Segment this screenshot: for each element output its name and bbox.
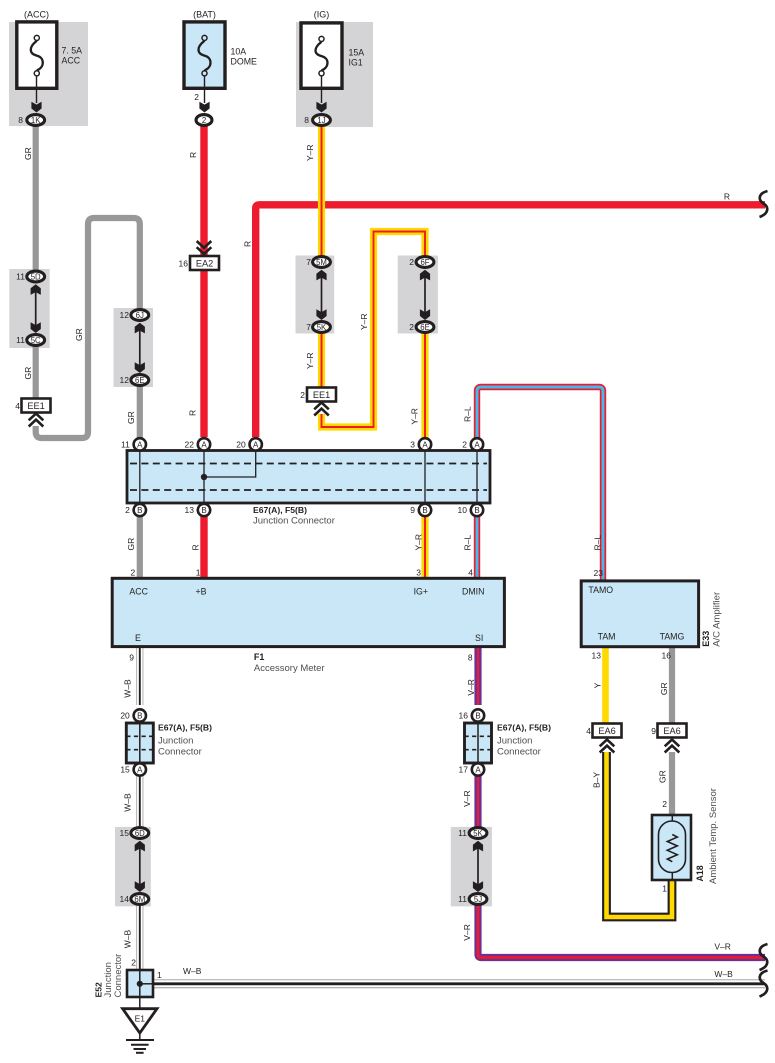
wire Y-R 5K to EE1: [318, 333, 325, 389]
break mark R wire: [760, 191, 768, 217]
connector EA6 pin 9 on GR wire: [658, 724, 687, 738]
svg-text:Y–R: Y–R: [305, 352, 315, 369]
svg-text:ACC: ACC: [62, 56, 81, 66]
connector 5J pin 11: [469, 894, 487, 905]
svg-text:11: 11: [16, 272, 25, 282]
svg-text:8: 8: [468, 653, 473, 663]
svg-text:11: 11: [458, 828, 467, 838]
connector 2: [196, 115, 212, 126]
wire GR EE1 loop to 6J via U-shape: [36, 218, 140, 438]
svg-text:+B: +B: [196, 587, 207, 597]
svg-text:B: B: [137, 712, 142, 721]
svg-text:DOME: DOME: [231, 57, 258, 67]
wire GR E33 TAMG to EA6: [669, 646, 675, 724]
svg-text:Accessory Meter: Accessory Meter: [254, 663, 325, 674]
svg-text:V–R: V–R: [462, 790, 472, 807]
fuse IG1 15A: [301, 23, 342, 88]
wire GR EA6 to A18 pin 2: [669, 752, 675, 815]
svg-text:GR: GR: [23, 147, 33, 160]
svg-text:Junction Connector: Junction Connector: [253, 516, 335, 527]
svg-text:Ambient Temp. Sensor: Ambient Temp. Sensor: [708, 788, 719, 884]
fuse DOME 10A: [184, 22, 225, 88]
svg-text:R: R: [191, 544, 201, 550]
svg-text:16: 16: [179, 258, 189, 268]
svg-text:16: 16: [459, 711, 469, 721]
connector 5K pin 7: [313, 322, 331, 333]
junction pin 10 B: [471, 504, 483, 516]
svg-text:12: 12: [120, 375, 130, 385]
connector EE1 pin 2 on Y-R wire: [307, 388, 336, 402]
svg-text:2: 2: [662, 799, 667, 809]
svg-text:5J: 5J: [474, 895, 482, 904]
junction pin 20 A: [250, 438, 262, 450]
svg-text:B: B: [201, 506, 206, 515]
connector 6M pin 14: [131, 894, 149, 905]
svg-text:GR: GR: [659, 682, 669, 695]
svg-text:Junction: Junction: [158, 736, 193, 747]
svg-text:17: 17: [459, 765, 469, 775]
connector pair background 6D/6M: [115, 827, 151, 907]
break mark W-B wire: [760, 971, 768, 997]
svg-text:7: 7: [306, 257, 311, 267]
svg-text:9: 9: [651, 726, 656, 736]
connector pair 5K/5J arrows: [477, 845, 479, 888]
svg-text:6F: 6F: [420, 258, 429, 267]
svg-text:TAMO: TAMO: [588, 585, 613, 595]
connector 5K pin 11: [469, 828, 487, 839]
junction internal link 22A-13B: [203, 451, 205, 504]
svg-text:A: A: [201, 440, 207, 449]
svg-text:1K: 1K: [31, 116, 41, 125]
svg-text:12: 12: [120, 310, 130, 320]
wire W-B F1 E to 20B: [136, 646, 143, 705]
connector 5M pin 7: [313, 257, 331, 268]
junction pin 17 A right: [472, 763, 484, 775]
wire GR from fuse ACC 1K to 5D: [33, 126, 39, 271]
junction connector E52 box: [127, 970, 153, 997]
svg-text:6E: 6E: [135, 376, 145, 385]
svg-text:B: B: [137, 506, 142, 515]
svg-text:E67(A), F5(B): E67(A), F5(B): [158, 723, 212, 733]
svg-text:V–R: V–R: [462, 924, 472, 941]
svg-text:W–B: W–B: [183, 966, 202, 976]
connector 6F pin 2: [416, 257, 434, 268]
connector 6J pin 12: [131, 310, 149, 321]
svg-text:E67(A), F5(B): E67(A), F5(B): [497, 723, 551, 733]
svg-text:20: 20: [120, 711, 130, 721]
fuse ACC 7.5A: [17, 22, 57, 88]
E52 node dot: [137, 981, 143, 987]
connector EE1 pin 4 on GR wire: [22, 399, 51, 413]
svg-text:A/C Amplifier: A/C Amplifier: [712, 592, 723, 647]
ambient temp sensor A18: [652, 815, 691, 880]
svg-text:2: 2: [130, 568, 135, 578]
connector pair background 6F/6E: [398, 256, 438, 334]
svg-text:A: A: [253, 440, 259, 449]
connector 1J pin 8: [313, 115, 331, 126]
svg-text:2: 2: [462, 440, 467, 450]
svg-text:5M: 5M: [316, 258, 327, 267]
wire W-B 6M to E52: [136, 904, 143, 970]
wire R from fuse DOME oval to EA2: [200, 126, 207, 437]
svg-text:2: 2: [409, 257, 414, 267]
svg-text:1: 1: [157, 970, 162, 980]
svg-text:B: B: [422, 506, 427, 515]
junction internal link 11A-2B: [139, 451, 141, 504]
svg-text:14: 14: [120, 894, 130, 904]
connector pair 5M/5K arrows: [321, 274, 323, 316]
junction pin 16 B right: [472, 709, 484, 721]
svg-text:Y–R: Y–R: [410, 408, 420, 425]
svg-text:1J: 1J: [317, 116, 325, 125]
svg-text:3: 3: [410, 440, 415, 450]
wire R-L junction 2A up over to E33 TAMO: [477, 387, 603, 581]
svg-text:9: 9: [129, 653, 134, 663]
svg-text:Y: Y: [593, 682, 603, 688]
svg-text:A: A: [475, 766, 481, 775]
svg-text:EE1: EE1: [27, 401, 44, 411]
svg-text:W–B: W–B: [123, 793, 133, 812]
svg-text:R: R: [188, 152, 198, 158]
svg-text:2: 2: [194, 92, 199, 102]
connector 6D pin 15: [131, 828, 149, 839]
svg-text:R–L: R–L: [463, 535, 473, 551]
svg-text:R: R: [188, 410, 198, 416]
svg-text:TAM: TAM: [598, 632, 616, 642]
svg-text:E52: E52: [94, 982, 104, 998]
wire V-R 5J down and right to edge break: [478, 904, 765, 958]
svg-text:4: 4: [15, 401, 20, 411]
svg-text:2: 2: [125, 505, 130, 515]
svg-text:V–R: V–R: [714, 942, 731, 952]
connector pair 6D/6M arrows: [139, 845, 141, 888]
svg-text:3: 3: [416, 568, 421, 578]
junction pin 13 B: [198, 504, 210, 516]
wire Y-R from fuse IG1 1J down to 5M: [318, 126, 325, 257]
svg-text:Junction: Junction: [497, 736, 532, 747]
accessory meter F1 box: [112, 578, 504, 646]
svg-text:A: A: [137, 766, 143, 775]
connector pair background 5M/5K: [296, 256, 335, 334]
svg-text:2: 2: [409, 322, 414, 332]
svg-text:6M: 6M: [134, 895, 145, 904]
ground symbol: [139, 1033, 141, 1040]
svg-text:6E: 6E: [420, 323, 430, 332]
svg-text:W–B: W–B: [714, 969, 733, 979]
svg-text:E33: E33: [701, 631, 711, 647]
junction connector E67(A) F5(B) left small box: [126, 723, 153, 763]
svg-text:EA2: EA2: [196, 258, 213, 268]
fuse block background (ACC): [9, 22, 88, 126]
junction pin 11 A: [134, 438, 146, 450]
resistor zigzag in A18: [667, 835, 677, 862]
svg-text:8: 8: [18, 115, 23, 125]
wire V-R 17A to 5K: [474, 775, 481, 828]
wire W-B 15A to 6D: [136, 775, 143, 828]
junction pin 9 B: [419, 504, 431, 516]
svg-text:20: 20: [236, 440, 246, 450]
svg-text:SI: SI: [475, 633, 483, 643]
wire R horizontal branch to right edge with break: [256, 205, 765, 437]
svg-text:E: E: [135, 633, 141, 643]
junction pin 20 B left: [134, 709, 146, 721]
svg-text:16: 16: [662, 651, 672, 661]
svg-text:EE1: EE1: [313, 390, 330, 400]
svg-text:GR: GR: [658, 770, 668, 783]
svg-text:ACC: ACC: [129, 587, 148, 597]
svg-text:R: R: [243, 241, 253, 247]
svg-text:(ACC): (ACC): [24, 9, 49, 19]
wire GR 5C to EE1: [33, 345, 39, 400]
junction internal link 2A-10B: [476, 451, 478, 504]
svg-text:23: 23: [594, 568, 604, 578]
svg-text:10A: 10A: [231, 47, 247, 57]
svg-text:13: 13: [592, 651, 602, 661]
svg-text:EA6: EA6: [598, 726, 615, 736]
svg-text:B–Y: B–Y: [592, 772, 602, 788]
svg-text:6D: 6D: [135, 829, 145, 838]
connector 1K pin 8: [27, 115, 45, 126]
connector 6E pin 2: [416, 322, 434, 333]
svg-text:Connector: Connector: [113, 954, 124, 998]
svg-text:E67(A), F5(B): E67(A), F5(B): [253, 505, 307, 515]
svg-text:IG+: IG+: [414, 587, 428, 597]
ground E1 triangle: [123, 1009, 157, 1033]
svg-text:4: 4: [586, 726, 591, 736]
wire GR junction pin 2B to F1 ACC: [137, 516, 143, 578]
connector pair background 6J/6E: [114, 308, 154, 387]
svg-text:15A: 15A: [349, 48, 365, 58]
svg-text:W–B: W–B: [123, 929, 133, 948]
svg-text:B: B: [475, 712, 480, 721]
junction node dot: [201, 474, 207, 480]
svg-text:15: 15: [120, 765, 130, 775]
svg-text:E1: E1: [135, 1014, 146, 1024]
svg-text:22: 22: [185, 440, 195, 450]
svg-text:F1: F1: [254, 652, 265, 662]
connector 5D pin 11: [27, 271, 45, 282]
connector EA2 pin 16 on R wire: [197, 247, 212, 254]
junction pin 2 A: [471, 438, 483, 450]
connector pair background 5K/5J: [451, 827, 492, 907]
svg-text:4: 4: [468, 568, 473, 578]
svg-text:11: 11: [16, 335, 25, 345]
svg-text:R–L: R–L: [593, 535, 603, 551]
svg-text:TAMG: TAMG: [660, 632, 685, 642]
svg-text:10: 10: [458, 505, 468, 515]
svg-text:GR: GR: [126, 411, 136, 424]
wire Y-R 6E to junction 3A: [421, 333, 428, 438]
svg-text:7. 5A: 7. 5A: [62, 46, 83, 56]
connector pair 5D/5C arrows: [35, 288, 37, 329]
connector pair background 5D/5C: [9, 269, 49, 348]
svg-text:2: 2: [202, 116, 206, 125]
A/C amplifier E33 box: [581, 581, 698, 647]
svg-text:13: 13: [185, 505, 195, 515]
svg-text:8: 8: [304, 115, 309, 125]
junction pin 3 A: [419, 438, 431, 450]
fuse block background (IG): [296, 22, 373, 127]
break mark V-R wire: [760, 944, 768, 970]
connector pair 6J/6E arrows: [139, 327, 141, 369]
svg-text:7: 7: [306, 322, 311, 332]
svg-text:Y–R: Y–R: [359, 313, 369, 330]
junction pin 15 A left: [134, 763, 146, 775]
svg-text:(IG): (IG): [314, 9, 330, 19]
svg-text:2: 2: [131, 958, 136, 968]
junction connector E67(A) F5(B) right small box: [465, 723, 492, 763]
svg-text:11: 11: [458, 894, 467, 904]
junction connector E67(A) F5(B) box: [127, 451, 490, 504]
connector 6E pin 12: [131, 375, 149, 386]
svg-text:6J: 6J: [136, 311, 144, 320]
svg-text:2: 2: [300, 390, 305, 400]
svg-text:5C: 5C: [31, 336, 41, 345]
junction internal link 20A branch: [204, 451, 256, 478]
svg-text:5K: 5K: [317, 323, 327, 332]
svg-text:DMIN: DMIN: [462, 587, 484, 597]
svg-text:5D: 5D: [31, 272, 41, 281]
connector 5C pin 11: [27, 335, 45, 346]
wire B-Y EA6 loop to A18 pin 1: [607, 752, 673, 917]
svg-text:11: 11: [121, 440, 130, 450]
wire V-R F1 SI to 16B: [474, 646, 481, 705]
svg-text:GR: GR: [74, 328, 84, 341]
wire Y-R EE1 chevron loop up-over to 6F: [322, 232, 426, 428]
svg-text:Y–R: Y–R: [305, 144, 315, 161]
svg-text:IG1: IG1: [349, 58, 363, 68]
junction pin 22 A: [198, 438, 210, 450]
svg-text:9: 9: [410, 505, 415, 515]
svg-text:B: B: [474, 506, 479, 515]
wire R-L junction 10B to F1 DMIN: [474, 516, 480, 578]
connector EA6 pin 4 on Y wire: [593, 724, 622, 738]
svg-text:A18: A18: [695, 865, 705, 881]
svg-text:(BAT): (BAT): [193, 9, 216, 19]
svg-text:A: A: [422, 440, 428, 449]
wire R junction 13B to F1 +B: [200, 516, 207, 578]
wire W-B horizontal from E52 to edge break: [153, 979, 765, 988]
svg-text:R: R: [724, 192, 730, 202]
svg-text:A: A: [474, 440, 480, 449]
svg-text:V–R: V–R: [466, 679, 476, 696]
wire GR 6E to junction pin 11A: [137, 385, 143, 438]
svg-text:Connector: Connector: [497, 747, 541, 758]
wire Y-R junction 9B to F1 IG+: [421, 516, 428, 578]
connector pair 6F/6E arrows: [424, 274, 426, 316]
svg-text:W–B: W–B: [123, 679, 133, 698]
svg-text:1: 1: [662, 884, 667, 894]
svg-text:EA6: EA6: [663, 726, 680, 736]
svg-text:GR: GR: [126, 538, 136, 551]
junction pin 2 B: [134, 504, 146, 516]
svg-text:GR: GR: [23, 367, 33, 380]
svg-text:Connector: Connector: [158, 747, 202, 758]
svg-text:R–L: R–L: [463, 406, 473, 422]
wire Y E33 TAM to EA6: [602, 646, 609, 724]
svg-text:1: 1: [196, 568, 201, 578]
svg-text:5K: 5K: [473, 829, 483, 838]
svg-text:A: A: [137, 440, 143, 449]
svg-text:Y–R: Y–R: [414, 534, 424, 551]
junction internal link 3A-9B: [424, 451, 426, 504]
svg-text:15: 15: [120, 828, 130, 838]
